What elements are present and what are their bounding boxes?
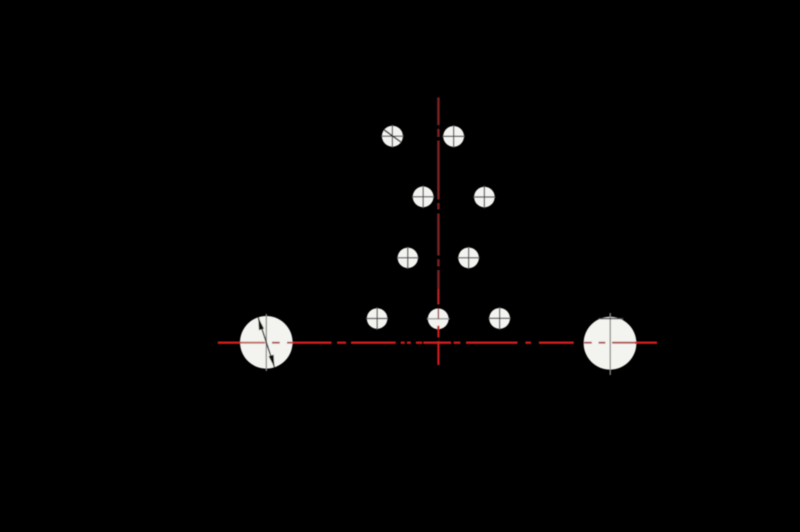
short dash (525, 342, 531, 344)
C11 vertical centerline (609, 313, 611, 375)
short dash inside C10 (272, 342, 280, 344)
hole C7 (366, 307, 389, 330)
C11 hidden dimension chord (599, 318, 624, 320)
C10 dimension arrowhead lower (269, 355, 275, 368)
dash (466, 342, 518, 344)
short dashes near center (401, 342, 405, 344)
red centerline segment inside C8 (437, 308, 439, 318)
hole C8 (427, 308, 450, 329)
vertical centerline upper dark-red dash-dot x=438.4 (437, 97, 439, 289)
short dash (337, 342, 346, 344)
dash inside C10 (241, 342, 266, 344)
dash leaving C11 to right end (635, 342, 657, 344)
leader line through C1 (384, 130, 402, 143)
C10 dimension arrowhead upper (258, 317, 264, 330)
hole C2 (442, 125, 465, 148)
dash (351, 342, 396, 344)
dash (539, 342, 574, 344)
C10 diameter dimension line (258, 317, 274, 367)
hole C10 (large left) (240, 314, 293, 371)
dash across vertical axis (423, 342, 451, 344)
hole C6 (457, 247, 480, 270)
vertical centerline transition segment (437, 289, 439, 305)
horizontal centerline y=342.7 (218, 342, 657, 344)
muted dashes inside C11 (584, 342, 592, 344)
hole C5 (397, 247, 419, 269)
dash (218, 342, 241, 344)
dash leaving C10 (287, 342, 293, 344)
hole C11 (large right) (584, 313, 637, 375)
vertical centerline lower bright segments (437, 326, 439, 365)
hole C4 (473, 186, 496, 209)
C10 vertical centerline (265, 314, 267, 371)
hole C9 (488, 307, 511, 330)
hole C1 (381, 125, 404, 148)
hole C3 (412, 185, 435, 208)
